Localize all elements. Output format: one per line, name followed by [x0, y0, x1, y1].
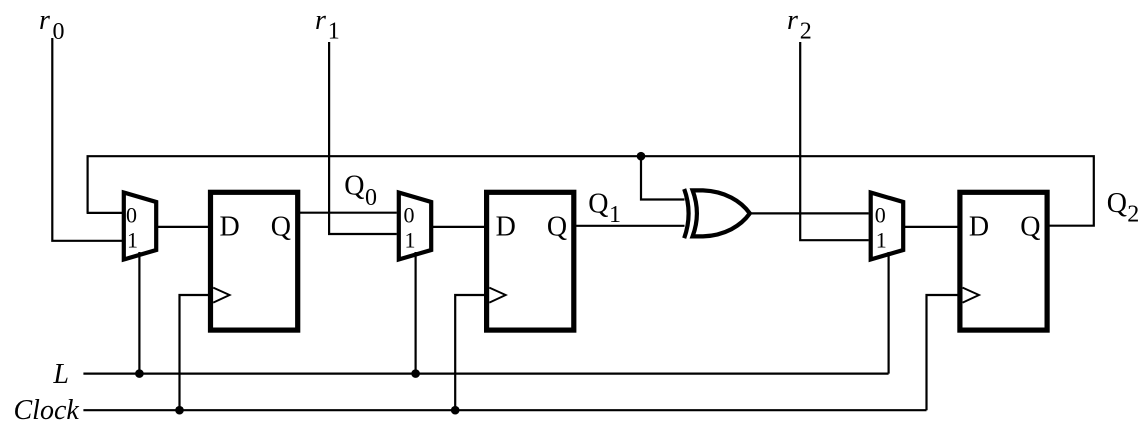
svg-text:Q: Q	[1020, 212, 1040, 243]
svg-text:0: 0	[126, 202, 137, 227]
svg-text:Q: Q	[588, 189, 608, 220]
wire L bus	[83, 373, 888, 375]
junction dot Clock FF1	[175, 406, 184, 415]
svg-text:2: 2	[1127, 202, 1139, 228]
svg-text:r: r	[787, 5, 798, 36]
label r1	[315, 5, 340, 44]
wire r1 vertical	[329, 42, 397, 234]
wire feedback top	[88, 156, 1094, 226]
svg-text:0: 0	[365, 185, 377, 211]
multiplexer mux1	[124, 193, 156, 260]
flip-flop FF2	[487, 192, 574, 330]
wire FF1 clock riser	[180, 295, 211, 410]
svg-text:r: r	[315, 5, 326, 36]
wire mux3 output	[903, 226, 960, 228]
flip-flop FF3	[960, 192, 1047, 330]
wire FF2 clock riser	[455, 295, 486, 410]
wire FF1 Q output	[298, 212, 397, 214]
svg-text:0: 0	[404, 202, 415, 227]
svg-text:Q: Q	[344, 171, 364, 202]
label r0	[39, 5, 65, 45]
svg-text:1: 1	[405, 227, 416, 252]
wire Clock bus	[83, 409, 926, 411]
svg-text:1: 1	[127, 227, 138, 252]
svg-text:1: 1	[328, 18, 340, 44]
label Q0	[344, 171, 377, 211]
clock triangle FF1	[213, 288, 229, 303]
svg-text:Q: Q	[547, 212, 567, 243]
label Q2	[1107, 188, 1140, 228]
wire mux1 output	[156, 226, 210, 228]
svg-text:L: L	[52, 359, 69, 390]
wire mux2 select	[415, 252, 417, 374]
svg-text:0: 0	[875, 202, 886, 227]
label r2	[787, 5, 812, 44]
wire FF2 Q output	[574, 225, 685, 227]
svg-text:1: 1	[876, 227, 887, 252]
wire xor output	[750, 212, 869, 214]
clock triangle FF3	[963, 288, 979, 303]
wire mux1 select	[138, 252, 140, 374]
svg-text:Q: Q	[1107, 188, 1127, 219]
wire r2 vertical	[800, 42, 869, 240]
wire r0 vertical	[52, 38, 122, 241]
wire mux2 output	[431, 226, 486, 228]
svg-text:D: D	[969, 212, 989, 243]
wire xor top input	[641, 156, 685, 199]
junction dot L mux2	[411, 369, 420, 378]
svg-text:Clock: Clock	[14, 395, 80, 426]
junction dot on feedback	[637, 152, 646, 161]
wire mux3 select	[887, 252, 889, 374]
flip-flop FF1	[211, 192, 298, 330]
svg-text:2: 2	[800, 18, 812, 44]
junction dot L mux1	[135, 369, 144, 378]
label Q1	[588, 189, 621, 228]
svg-text:Q: Q	[271, 212, 291, 243]
wire feedback into mux1 input 0	[87, 212, 122, 214]
wire FF3 clock riser	[927, 295, 960, 410]
svg-text:0: 0	[53, 19, 65, 45]
svg-text:r: r	[39, 5, 50, 36]
clock triangle FF2	[489, 288, 505, 303]
junction dot Clock FF2	[451, 406, 460, 415]
multiplexer mux2	[399, 193, 431, 260]
multiplexer mux3	[871, 193, 904, 260]
svg-text:D: D	[220, 212, 240, 243]
svg-text:D: D	[496, 212, 516, 243]
xor gate U1	[684, 189, 750, 238]
svg-text:1: 1	[609, 202, 621, 228]
